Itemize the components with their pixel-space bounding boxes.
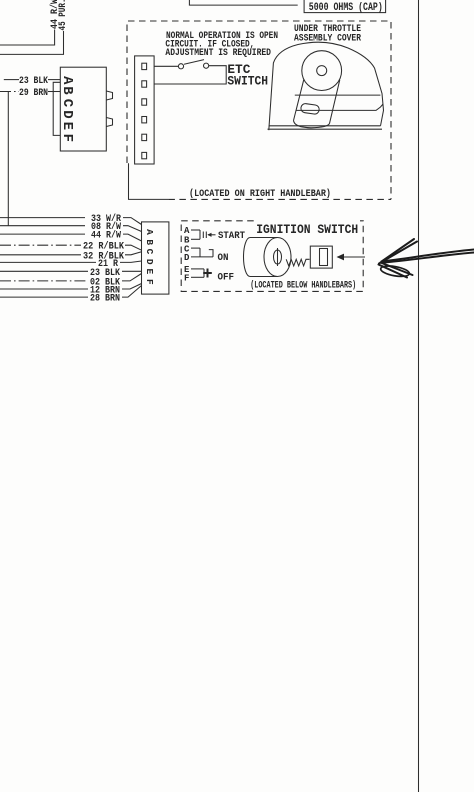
- wire 23 BLK: [0, 267, 142, 279]
- svg-text:C: C: [59, 99, 75, 108]
- svg-text:29 BRN: 29 BRN: [19, 87, 48, 99]
- svg-text:D: D: [59, 110, 75, 118]
- wire 33 W/R: [0, 213, 142, 225]
- svg-text:F: F: [184, 274, 189, 284]
- wire 29 BRN: [0, 87, 60, 99]
- wire 28 BRN: [0, 286, 142, 305]
- wire 23 BLK: [4, 75, 61, 87]
- wire to capacitor note box: [189, 0, 297, 5]
- svg-text:F: F: [144, 279, 155, 285]
- page border line: [418, 0, 420, 792]
- key drawing: [286, 246, 332, 268]
- svg-text:E: E: [59, 122, 75, 130]
- svg-text:D: D: [184, 253, 190, 263]
- wire 22 R/BLK: [0, 241, 142, 253]
- svg-text:ON: ON: [218, 252, 229, 264]
- wire 44 R/W to pin B: [0, 230, 142, 242]
- wire 02 BLK: [0, 274, 142, 289]
- svg-text:28 BRN: 28 BRN: [90, 293, 120, 305]
- wire 21 R: [0, 258, 142, 270]
- ignition switch terminal A: [184, 226, 200, 236]
- svg-text:(LOCATED BELOW HANDLEBARS): (LOCATED BELOW HANDLEBARS): [250, 280, 356, 292]
- ignition switch terminal B: [184, 230, 200, 246]
- hand-drawn arrow pointing at ignition switch: [379, 239, 474, 278]
- svg-text:B: B: [59, 86, 75, 95]
- dashed enclosure ignition switch: [181, 216, 363, 291]
- svg-text:F: F: [59, 134, 75, 142]
- wire jumper bracket pins B-F: [53, 82, 60, 135]
- wire 12 BRN: [0, 284, 142, 297]
- ignition switch terminal E: [184, 265, 204, 275]
- svg-text:45 PUR.: 45 PUR.: [57, 0, 69, 31]
- arrow at key: [337, 254, 366, 261]
- svg-text:START: START: [218, 230, 245, 242]
- ignition switch terminal D: [184, 248, 213, 263]
- resistor note box 5000 OHMS (CAP): [304, 0, 386, 14]
- wire 32 R/BLK: [0, 250, 142, 262]
- ignition switch terminal F: [184, 269, 204, 284]
- svg-text:23 BLK: 23 BLK: [19, 75, 49, 87]
- text located below handlebars: [250, 280, 356, 292]
- text note normal operation: [165, 30, 278, 59]
- ETC switch contacts: [154, 60, 226, 84]
- svg-text:D: D: [144, 259, 155, 265]
- contact START: [203, 230, 245, 242]
- SEC6: [0, 0, 1, 1]
- text UNDER THROTTLE ASSEMBLY COVER: [294, 23, 362, 45]
- SEC5: [0, 0, 1, 1]
- svg-text:SWITCH: SWITCH: [227, 74, 268, 89]
- svg-text:B: B: [144, 239, 155, 245]
- svg-text:OFF: OFF: [218, 272, 235, 284]
- connector block ABCDEF (ignition switch): [142, 222, 169, 294]
- key cylinder drawing: [244, 238, 291, 277]
- svg-text:E: E: [144, 268, 155, 274]
- label ETC SWITCH: [227, 62, 268, 89]
- ignition switch terminal C: [184, 244, 200, 254]
- connector strip ETC: [135, 56, 155, 164]
- SEC3: [0, 0, 1, 1]
- wire down from 29 BRN node: [7, 92, 9, 226]
- svg-text:A: A: [144, 229, 155, 235]
- svg-text:A: A: [59, 76, 75, 85]
- wire 08 R/W: [0, 221, 142, 233]
- svg-text:C: C: [144, 249, 155, 255]
- throttle assembly drawing: [268, 42, 384, 130]
- svg-text:5000 OHMS (CAP): 5000 OHMS (CAP): [309, 2, 383, 14]
- contact OFF: [203, 269, 234, 284]
- svg-text:(LOCATED ON RIGHT HANDLEBAR): (LOCATED ON RIGHT HANDLEBAR): [189, 188, 331, 200]
- SEC4: [0, 0, 1, 1]
- wire 44 R/W: [0, 0, 61, 45]
- contact ON: [209, 250, 229, 265]
- text located on right handlebar: [189, 188, 331, 200]
- svg-text:ADJUSTMENT IS REQUIRED: ADJUSTMENT IS REQUIRED: [165, 47, 271, 59]
- connector block ABCDEF (handlebar harness): [59, 67, 113, 151]
- svg-text:IGNITION SWITCH: IGNITION SWITCH: [256, 223, 358, 237]
- dashed enclosure ETC switch (located on right handlebar): [127, 21, 391, 199]
- wire 45 PUR: [0, 0, 69, 54]
